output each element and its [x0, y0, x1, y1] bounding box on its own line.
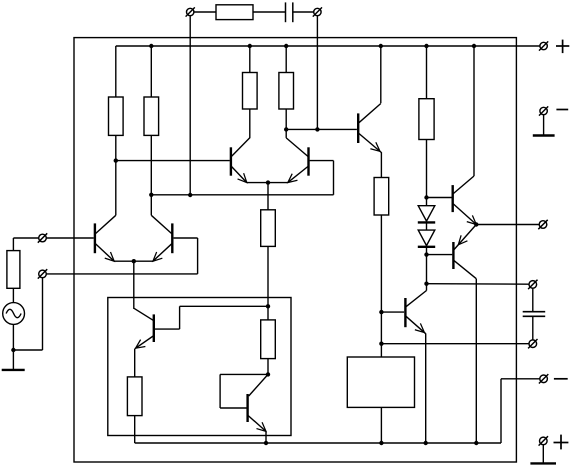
wire comp node 2 to terminal CP2: [381, 343, 529, 345]
wire Q10 base route (left, down, right to bar): [220, 374, 268, 408]
ground bar (chassis): [530, 462, 556, 464]
wire Q3 base to R1 node: [116, 160, 230, 162]
transistor Q3 (second stage pair left): [231, 138, 250, 186]
wire IN- terminal down to ground node: [13, 278, 42, 350]
label minus sign (common top): [556, 109, 568, 111]
transistor Q6 (current sink): [405, 284, 427, 336]
node bias top junction: [266, 304, 270, 308]
node Q6 collector / comp junction: [424, 282, 428, 286]
transistor Q2 (input pair right): [150, 215, 172, 264]
terminal P1 (offset null 1, top left): [186, 7, 195, 16]
node rail/Q7 collector junction: [472, 44, 476, 48]
wire rail to R4: [285, 46, 287, 73]
wire rail to R1: [115, 46, 117, 97]
node Q8 base junction: [424, 252, 428, 256]
wire P2 down into circuit: [316, 16, 318, 130]
resistor R4: [279, 73, 294, 110]
terminal IN+ (left, to signal source): [38, 233, 47, 242]
transistor Q9 (bias mirror left, inside box): [133, 308, 154, 351]
node rail/Q6 junction: [424, 441, 428, 445]
wire R7 to bias node: [267, 246, 269, 306]
wire D2 down to Q6 collector node: [426, 247, 428, 284]
wire Q9 emitter to R9: [134, 349, 136, 377]
wire Q5 emitter to R5: [380, 152, 382, 177]
wire bottom rail up to V- terminal: [501, 379, 540, 443]
node rail/R2 junction: [149, 44, 153, 48]
wire input pair common emitter segment: [114, 260, 153, 262]
terminal CP2 (right mid lower): [528, 339, 537, 348]
resistor R5 (driver emitter): [374, 178, 389, 216]
resistor R9 (bias, inner left): [127, 377, 142, 416]
wire IN- terminal to Q2 base route: [46, 273, 197, 275]
wire second pair common emitter segment: [247, 182, 288, 184]
wire Q7 base: [427, 197, 452, 199]
wire R10 to source V1: [12, 288, 14, 302]
capacitor C1 (external, top): [286, 2, 293, 22]
wire R2 bottom to Q2 collector: [150, 135, 152, 215]
node rail/R3 junction: [248, 44, 252, 48]
wire C2 to CP2: [532, 316, 534, 340]
wire D1 to D2: [426, 222, 428, 230]
wire IN+ terminal to Q1 base: [46, 237, 93, 239]
IC outer boundary box: [74, 38, 516, 462]
diode D1: [418, 206, 435, 223]
ground bar (signal ground): [2, 369, 25, 371]
node R4 / Q5 base junction: [284, 127, 288, 131]
resistor R6: [419, 99, 434, 140]
wire R1 bottom to Q1 collector: [115, 135, 117, 215]
wire tail down to Q9 collector: [133, 261, 135, 309]
node P2 wire / driver base junction: [315, 127, 319, 131]
terminal chassis (bottom right, floating): [539, 436, 548, 445]
wire R3 bottom to Q3 collector: [249, 109, 251, 138]
capacitor C2 (external comp): [523, 312, 546, 317]
wire P1 down into circuit: [189, 16, 191, 195]
transistor Q5 (driver): [358, 104, 383, 155]
terminal OUT (right): [538, 220, 547, 229]
label minus sign (V-): [554, 378, 568, 380]
wire output node to OUT terminal: [476, 224, 539, 226]
wire Q5 collector vertical: [380, 46, 382, 103]
label plus sign (chassis): [554, 435, 569, 450]
resistor R10 (source resistance): [7, 251, 20, 289]
transistor Q8 (output lower PNP): [453, 225, 476, 279]
resistor R8 (bias, inner right): [261, 320, 276, 359]
wire R9 to bottom rail corner: [134, 416, 136, 443]
wire Q2 base route (right, down, left to IN-): [174, 238, 198, 274]
terminal V- (bottom right): [539, 374, 548, 383]
node input pair tail: [132, 259, 136, 263]
resistor R3: [243, 73, 258, 110]
wire R5 down to block B1: [380, 215, 382, 357]
wire chassis terminal to ground bar: [542, 445, 544, 464]
node rail/R4 junction: [284, 44, 288, 48]
wire bottom rail: [135, 442, 501, 444]
source V1 (sine generator): [3, 303, 25, 325]
terminal P2 (offset null 2 / comp, top right): [313, 7, 322, 16]
node rail/R6 junction: [424, 44, 428, 48]
node second pair tail: [266, 180, 270, 184]
node V1-low / IN- junction: [11, 348, 15, 352]
wire Q10 emitter to bottom rail: [265, 431, 267, 443]
transistor Q10 (bias mirror right, diode connected): [248, 374, 269, 434]
wire C1 to P2: [293, 11, 314, 13]
wire Q5 base (node to bar): [286, 128, 357, 130]
wire Q8 collector down to bottom rail: [475, 279, 477, 443]
current source block B1: [347, 357, 414, 407]
resistor R2: [144, 97, 159, 135]
node R1 / Q3 base junction: [114, 158, 118, 162]
wire Q9 base route (right, up, right to bias node): [155, 306, 268, 329]
node P1 wire / base route junction: [188, 193, 192, 197]
resistor R1: [109, 97, 124, 135]
wire V+ rail: [116, 45, 540, 47]
terminal CP1 (right mid upper): [528, 280, 537, 289]
node rail/Q8 junction: [474, 441, 478, 445]
node rail/Q10 junction: [264, 441, 268, 445]
terminal IN- (left lower): [38, 269, 47, 278]
wire R11 to C1: [253, 11, 286, 13]
node output junction: [474, 222, 478, 226]
wire R6 to diode chain: [426, 140, 428, 206]
node Q10 collector-base junction: [266, 372, 270, 376]
wire tail2 down to R7: [267, 183, 269, 210]
wire P1 to R11: [194, 11, 216, 13]
wire block B1 to bottom rail: [380, 407, 382, 443]
resistor R7 (tail bias): [261, 210, 276, 247]
wire Q4 base route (right, down, left to R2 node): [151, 161, 333, 195]
resistor R11 (external, top): [216, 5, 253, 20]
wire bias node to R8: [267, 306, 269, 320]
node Q6 base junction: [379, 310, 383, 314]
node rail/B1 junction: [379, 441, 383, 445]
node rail/Q5 collector junction: [379, 44, 383, 48]
node Q7 base junction: [424, 195, 428, 199]
wire comp node to terminal CP1: [427, 283, 530, 286]
wire IN+ terminal to R10: [13, 238, 38, 251]
wire rail to R6: [426, 46, 428, 99]
transistor Q1 (input pair left): [95, 215, 117, 264]
node R2 / base route junction: [149, 193, 153, 197]
diode D2: [418, 230, 435, 247]
wire Q8 base: [427, 254, 453, 256]
transistor Q4 (second stage pair right): [285, 138, 308, 186]
transistor Q7 (output upper NPN): [453, 176, 479, 228]
ground bar (common top right): [533, 134, 555, 136]
wire rail to R3: [249, 46, 251, 73]
label plus sign (V+): [556, 40, 569, 54]
wire CP1 to C2: [532, 288, 534, 312]
wire R8 to Q10 collector node: [267, 359, 269, 375]
terminal V+ (top right): [539, 41, 548, 50]
terminal common (right, floating): [539, 106, 548, 115]
bias network inner box: [108, 298, 291, 436]
node comp wire junction: [379, 342, 383, 346]
wire Q6 base: [381, 311, 404, 313]
wire common terminal to ground bar: [543, 115, 545, 135]
wire Q7 collector vertical: [473, 46, 475, 176]
wire R4 bottom to node: [285, 109, 287, 138]
wire V1 to ground: [12, 324, 14, 369]
wire rail to R2: [150, 46, 152, 97]
wire Q6 emitter to bottom rail: [425, 333, 427, 443]
